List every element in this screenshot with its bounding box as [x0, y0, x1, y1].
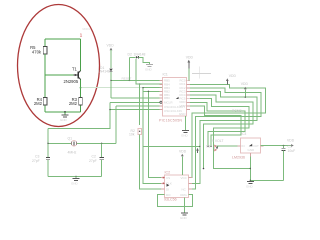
wire crystal bottom rail [48, 176, 102, 178]
crystal Q1 [68, 137, 77, 155]
svg-text:GND: GND [71, 182, 79, 186]
supply VDD out [287, 139, 295, 147]
junction bottom [64, 111, 66, 113]
diode D1 [98, 66, 113, 74]
junction collector [80, 87, 82, 89]
svg-text:MOD1: MOD1 [83, 27, 91, 31]
wire net N1 [189, 84, 266, 177]
svg-text:27pF: 27pF [89, 159, 97, 163]
wire right column lower [80, 80, 82, 98]
svg-text:C1: C1 [288, 145, 292, 149]
svg-text:IN: IN [242, 144, 245, 148]
wire base [45, 74, 74, 76]
svg-text:X1: X1 [206, 145, 210, 149]
svg-text:DI: DI [166, 187, 169, 191]
wire net N6 [190, 102, 245, 146]
wire row1 [111, 79, 163, 81]
supply VDD1 symbol [107, 44, 115, 69]
capacitor C3 [32, 155, 50, 177]
svg-text:2N2905: 2N2905 [64, 79, 79, 84]
svg-text:1: 1 [80, 33, 83, 39]
wire R3 bottom [80, 106, 82, 113]
frame cross [192, 67, 211, 79]
svg-text:VDD: VDD [229, 74, 237, 78]
junction row1 [110, 80, 111, 81]
resistor R2 [129, 84, 164, 190]
wire net N4 [190, 95, 253, 168]
svg-text:DO: DO [166, 193, 171, 197]
svg-text:VDD: VDD [179, 150, 187, 154]
IC1 ground stub [181, 116, 189, 138]
svg-text:C3: C3 [35, 155, 39, 159]
ground crystal [71, 176, 80, 186]
wire net N7 [190, 106, 241, 146]
IC2 pin marker [167, 184, 170, 187]
IC1 left pin names [164, 79, 185, 113]
svg-text:PIC16C505N: PIC16C505N [159, 118, 182, 122]
IC3 pins [238, 146, 264, 157]
wire OSC2 riser [115, 106, 117, 143]
IC1 right pins [187, 81, 191, 110]
node 1 label [80, 27, 91, 39]
wire MCLR row [110, 101, 162, 103]
svg-text:PGND: PGND [232, 109, 242, 113]
wire D2 anode vertical [136, 59, 163, 84]
wire gnd rail right [250, 179, 283, 181]
svg-text:VCC: VCC [181, 176, 188, 180]
svg-text:470k: 470k [32, 50, 42, 55]
IC2 body [164, 171, 189, 202]
svg-text:10k: 10k [129, 132, 135, 136]
svg-text:IC3: IC3 [241, 132, 246, 136]
IC1 left pins [160, 80, 163, 109]
svg-text:GND: GND [181, 134, 189, 138]
wire IC3 gnd down [249, 157, 251, 182]
diode D2 [128, 53, 150, 64]
svg-text:CS: CS [166, 176, 170, 180]
svg-text:10uF: 10uF [288, 149, 296, 153]
svg-text:GND: GND [180, 216, 188, 220]
crystal top wire [47, 128, 49, 157]
svg-text:Q1: Q1 [68, 137, 73, 141]
svg-text:4MHz: 4MHz [68, 151, 77, 155]
wire H147 [143, 145, 200, 147]
IC2 right pins [189, 178, 192, 195]
wire OSC1 row [110, 109, 163, 111]
wire net N3 [189, 92, 257, 184]
svg-text:1N4148: 1N4148 [98, 70, 110, 74]
IC3 body LM2936 [232, 132, 260, 160]
wire OSC2 row [116, 105, 163, 107]
wire OSC1 riser [48, 102, 110, 128]
svg-text:VDD: VDD [186, 56, 194, 60]
wire D2 left vertical [128, 57, 130, 80]
annotation ellipse [18, 5, 100, 127]
ground ellipse circuit [60, 112, 69, 122]
svg-text:VPP: VPP [179, 104, 185, 108]
transistor T1 2N2905 [64, 66, 81, 84]
wire right column upper [80, 39, 82, 70]
svg-text:9 VOLT: 9 VOLT [212, 139, 223, 143]
IC1 body [159, 73, 187, 123]
svg-text:2M2: 2M2 [34, 101, 43, 106]
wire row4 [143, 90, 163, 92]
wire left column lower [44, 106, 46, 113]
svg-text:MCLR: MCLR [164, 100, 173, 104]
svg-text:GND: GND [248, 148, 256, 152]
svg-text:ORG: ORG [180, 193, 188, 197]
junction row3 [148, 91, 149, 92]
wire net N2 [189, 88, 262, 189]
svg-text:GND: GND [145, 67, 153, 71]
IC2 pin names [166, 176, 188, 197]
junction row4 [142, 87, 143, 88]
junction OSC1 [109, 109, 110, 110]
wire IC2 loop pin4 [158, 195, 193, 207]
svg-text:93LC56: 93LC56 [164, 197, 177, 201]
IC1 internal mark [176, 97, 179, 99]
wire top of ellipse circuit [45, 38, 81, 40]
supply VDD R1 stub [241, 82, 249, 98]
svg-text:VDD: VDD [241, 82, 249, 86]
svg-text:GND: GND [60, 118, 68, 122]
svg-text:D2: D2 [128, 53, 132, 57]
terminal X1 9V input [206, 139, 240, 151]
resistor R5 [30, 45, 47, 55]
svg-text:GND: GND [246, 185, 254, 189]
wire IC3 out [260, 145, 291, 147]
svg-text:GND: GND [179, 112, 187, 116]
wire left column mid [44, 54, 46, 98]
capacitor C1 [281, 145, 295, 181]
resistor R3 [69, 97, 82, 106]
svg-text:IC1: IC1 [163, 73, 168, 77]
supply VDD IC1 pin1 [186, 56, 194, 81]
wire row3 vertical to IC2 [148, 91, 164, 177]
supply VDD IC2 [179, 150, 187, 175]
IC1 right pin names [179, 79, 187, 116]
ground IC3 [246, 180, 254, 189]
svg-text:27pF: 27pF [32, 159, 40, 163]
wire row4 vertical to IC2 [143, 88, 164, 184]
wire collector to IC (pale) [81, 87, 144, 89]
wire row6 [111, 97, 163, 99]
IC2 left pins [161, 178, 164, 195]
svg-text:C2: C2 [92, 155, 96, 159]
ground D2 [145, 64, 153, 71]
supply arrow N1 [226, 74, 237, 84]
svg-text:1N4148: 1N4148 [134, 53, 146, 57]
wire bottom of ellipse circuit [45, 111, 81, 113]
wire net N5 [190, 99, 250, 169]
ground IC2 [180, 198, 188, 221]
svg-text:VDD: VDD [287, 139, 295, 143]
wire D1 down [110, 72, 112, 98]
wire crystal row [48, 142, 116, 144]
svg-text:LM2936: LM2936 [232, 156, 245, 160]
svg-text:2M2: 2M2 [69, 101, 78, 106]
resistor R4 [34, 97, 47, 106]
wire left column upper [44, 39, 46, 46]
svg-text:T1: T1 [72, 66, 78, 71]
svg-text:VDD: VDD [107, 44, 115, 48]
capacitor C2 [89, 143, 104, 176]
svg-text:IC2: IC2 [165, 171, 171, 175]
